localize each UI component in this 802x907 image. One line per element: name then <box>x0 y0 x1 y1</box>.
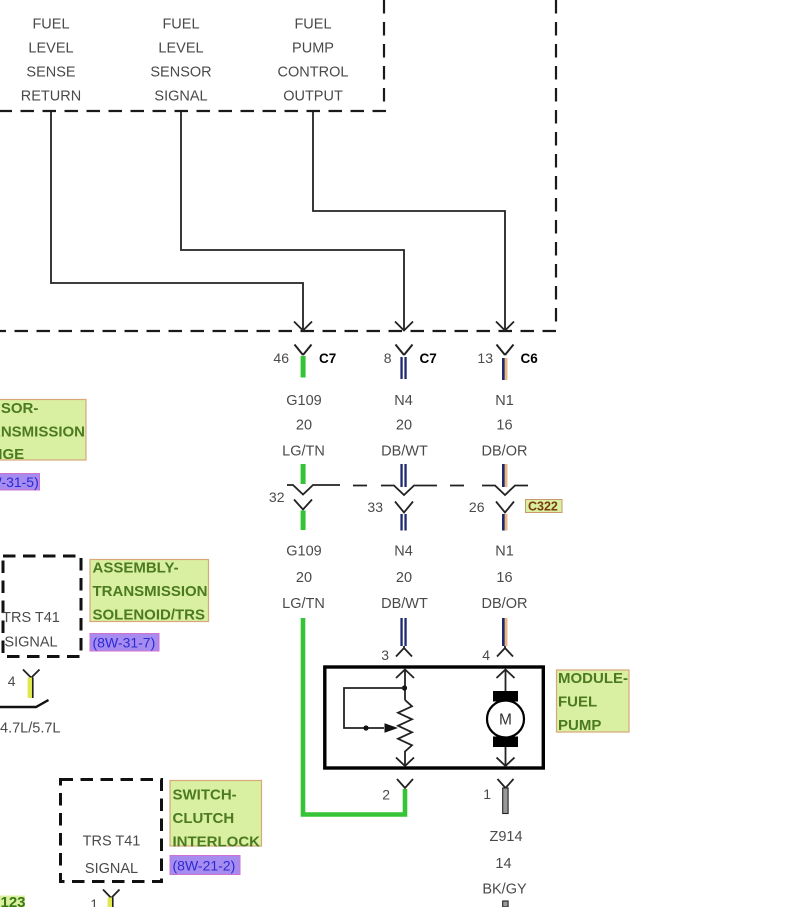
svg-text:2: 2 <box>382 787 390 803</box>
label C322 <box>526 500 563 514</box>
svg-text:Z914: Z914 <box>489 829 522 845</box>
svg-text:LG/TN: LG/TN <box>282 444 325 460</box>
wiper tap dot <box>363 725 368 730</box>
wire Z914 BK/GY upper segment <box>503 788 508 814</box>
TRS pin 4 connector <box>8 670 40 699</box>
wire label G109 20 LG/TN (upper) <box>282 393 325 460</box>
svg-text:3: 3 <box>381 647 389 663</box>
svg-text:FUEL: FUEL <box>558 694 597 711</box>
svg-text:DB/WT: DB/WT <box>381 444 428 460</box>
svg-text:33: 33 <box>367 499 383 515</box>
svg-text:OUTPUT: OUTPUT <box>283 89 343 105</box>
svg-text:TRANSMISSION: TRANSMISSION <box>0 424 85 441</box>
node TRS T41 SIGNAL (upper) <box>2 610 60 651</box>
motor M1 <box>487 701 524 738</box>
svg-text:20: 20 <box>396 418 412 434</box>
connector pin 13 C6 <box>477 345 538 381</box>
svg-text:4.7L/5.7L: 4.7L/5.7L <box>0 721 60 737</box>
grid label 123 <box>0 894 26 907</box>
wire LG/TN green run to pump pin 2 <box>303 618 405 815</box>
wire label N4 20 DB/WT (lower) <box>381 544 428 613</box>
svg-text:(8W-31-7): (8W-31-7) <box>93 635 156 651</box>
svg-text:LEVEL: LEVEL <box>28 41 73 57</box>
connector pin 46 C7 <box>273 345 336 378</box>
svg-text:RETURN: RETURN <box>21 89 81 105</box>
sender wiper tap wire <box>344 688 405 728</box>
svg-text:SIGNAL: SIGNAL <box>154 89 207 105</box>
wire N4 DB/WT to pump pin 3 <box>381 618 412 663</box>
svg-text:M: M <box>499 712 512 729</box>
svg-text:26: 26 <box>469 499 485 515</box>
svg-text:N1: N1 <box>495 544 514 560</box>
svg-text:14: 14 <box>495 856 511 872</box>
wire label N4 20 DB/WT (upper) <box>381 393 428 460</box>
svg-text:SENSE: SENSE <box>26 65 75 81</box>
svg-text:(8W-21-2): (8W-21-2) <box>173 858 236 874</box>
svg-text:46: 46 <box>273 350 289 366</box>
svg-text:G109: G109 <box>286 393 321 409</box>
svg-text:INTERLOCK: INTERLOCK <box>173 834 261 851</box>
svg-text:N4: N4 <box>394 544 413 560</box>
label ASSEMBLY-TRANSMISSION SOLENOID/TRS <box>90 560 209 624</box>
TRS box upper (dashed) <box>3 556 81 657</box>
svg-text:RANGE: RANGE <box>0 446 24 463</box>
svg-text:CLUTCH: CLUTCH <box>173 810 235 827</box>
wire sensor-signal to pin 8 <box>181 112 413 331</box>
wire label Z914 14 BK/GY <box>482 829 527 898</box>
svg-text:FUEL: FUEL <box>162 17 199 33</box>
svg-text:LG/TN: LG/TN <box>282 596 325 612</box>
TRS lower pin 1 connector <box>90 890 119 907</box>
wire Z914 BK/GY lower segment <box>503 901 508 907</box>
node TRS T41 SIGNAL (lower) <box>83 834 141 878</box>
svg-text:MODULE-: MODULE- <box>558 670 628 687</box>
label SWITCH-CLUTCH INTERLOCK <box>170 781 262 851</box>
svg-text:1: 1 <box>90 896 98 907</box>
node FUEL PUMP CONTROL OUTPUT <box>278 17 349 105</box>
svg-text:SIGNAL: SIGNAL <box>4 635 57 651</box>
wire label N1 16 DB/OR (lower) <box>482 544 528 613</box>
PCM outer dashed border <box>0 0 556 331</box>
svg-text:N1: N1 <box>495 393 514 409</box>
label (8W-31-5) <box>0 474 40 491</box>
svg-text:CONTROL: CONTROL <box>278 65 349 81</box>
connector C322 pin 26 <box>469 464 528 531</box>
svg-text:16: 16 <box>496 570 512 586</box>
junction dot (sender top) <box>402 685 407 690</box>
svg-text:32: 32 <box>269 489 285 505</box>
svg-text:PUMP: PUMP <box>292 41 334 57</box>
svg-text:TRS T41: TRS T41 <box>2 610 60 626</box>
svg-text:SIGNAL: SIGNAL <box>85 861 138 877</box>
svg-text:ASSEMBLY-: ASSEMBLY- <box>93 560 179 577</box>
svg-text:4: 4 <box>482 647 490 663</box>
svg-text:TRANSMISSION: TRANSMISSION <box>93 583 208 600</box>
svg-text:13: 13 <box>477 350 493 366</box>
wire stub 4.7L/5.7L hook <box>0 700 49 707</box>
sender bottom arrow <box>396 758 414 767</box>
motor input arrow <box>497 670 515 692</box>
motor output arrow <box>497 747 515 766</box>
label MODULE-FUEL PUMP <box>557 670 630 734</box>
label (8W-21-2) <box>170 856 240 875</box>
svg-text:DB/OR: DB/OR <box>482 444 528 460</box>
svg-text:C7: C7 <box>319 351 336 366</box>
wire pump-control to pin 13 <box>313 112 514 331</box>
pump sender input arrow <box>396 670 414 701</box>
svg-text:4: 4 <box>8 673 16 689</box>
svg-text:8: 8 <box>384 350 392 366</box>
svg-text:DB/WT: DB/WT <box>381 596 428 612</box>
wire label N1 16 DB/OR (upper) <box>482 393 528 460</box>
svg-text:FUEL: FUEL <box>294 17 331 33</box>
label SENSOR-TRANSMISSION RANGE <box>0 400 86 464</box>
pump pin 2 <box>382 779 413 803</box>
C322 boundary dashes <box>353 485 464 487</box>
wire N1 DB/OR to pump pin 4 <box>482 618 513 663</box>
connector C322 pin 32 <box>269 464 340 530</box>
fuel pump module box <box>325 667 544 768</box>
svg-text:(8W-31-5): (8W-31-5) <box>0 474 39 490</box>
connector C322 pin 33 <box>367 464 437 531</box>
svg-text:SWITCH-: SWITCH- <box>173 787 237 804</box>
svg-text:20: 20 <box>296 418 312 434</box>
TRS box lower (dashed) <box>61 780 162 882</box>
svg-text:123: 123 <box>1 894 26 907</box>
svg-text:SENSOR-: SENSOR- <box>0 400 38 417</box>
PCM inner dashed border <box>0 0 386 111</box>
svg-text:PUMP: PUMP <box>558 717 601 734</box>
svg-text:C322: C322 <box>528 500 558 514</box>
svg-text:TRS T41: TRS T41 <box>83 834 141 850</box>
svg-text:SOLENOID/TRS: SOLENOID/TRS <box>93 607 206 624</box>
svg-text:DB/OR: DB/OR <box>482 596 528 612</box>
svg-text:LEVEL: LEVEL <box>158 41 203 57</box>
svg-text:20: 20 <box>296 570 312 586</box>
resistor (level sender) <box>398 700 412 765</box>
svg-text:FUEL: FUEL <box>32 17 69 33</box>
connector pin 8 C7 <box>384 345 437 380</box>
svg-text:BK/GY: BK/GY <box>482 882 527 898</box>
wiper arrowhead <box>385 723 399 732</box>
svg-text:20: 20 <box>396 570 412 586</box>
node FUEL LEVEL SENSOR SIGNAL <box>150 17 211 105</box>
svg-text:16: 16 <box>496 418 512 434</box>
motor brush top <box>493 691 518 702</box>
label (8W-31-7) <box>90 634 159 652</box>
node FUEL LEVEL SENSE RETURN <box>21 17 81 105</box>
pump pin 1 <box>483 779 513 802</box>
svg-text:N4: N4 <box>394 393 413 409</box>
wire label G109 20 LG/TN (lower) <box>282 544 325 613</box>
svg-text:1: 1 <box>483 786 491 802</box>
wire sense-return to pin 46 <box>51 112 312 331</box>
svg-text:C6: C6 <box>521 351 539 366</box>
svg-text:G109: G109 <box>286 544 321 560</box>
svg-text:C7: C7 <box>420 351 437 366</box>
svg-text:SENSOR: SENSOR <box>150 65 211 81</box>
motor brush bottom <box>493 737 518 748</box>
